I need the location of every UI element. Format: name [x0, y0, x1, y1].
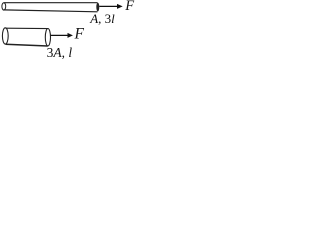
svg-text:F: F: [74, 26, 85, 43]
svg-text:3A, l: 3A, l: [47, 45, 73, 60]
svg-text:A, 3l: A, 3l: [89, 11, 115, 26]
svg-text:F: F: [124, 0, 134, 14]
